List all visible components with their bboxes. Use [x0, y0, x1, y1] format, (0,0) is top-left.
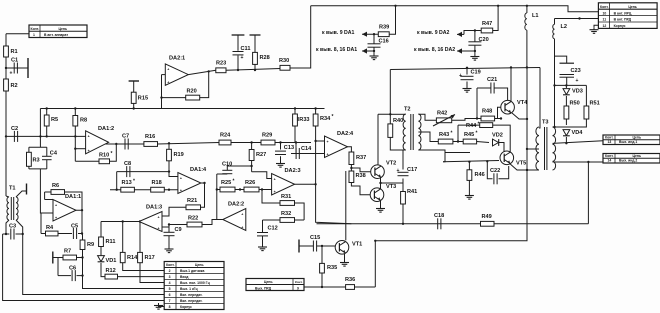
- svg-text:Вых. пол. 1000 Гц: Вых. пол. 1000 Гц: [180, 281, 211, 285]
- svg-text:Вых.1 датчика: Вых.1 датчика: [180, 269, 204, 273]
- svg-text:R43: R43: [439, 132, 449, 138]
- resistor R47: [481, 21, 493, 33]
- connector table X5 out1: [603, 135, 660, 145]
- capacitor C2: [11, 126, 18, 142]
- svg-text:14: 14: [608, 159, 612, 163]
- svg-text:DA1:4: DA1:4: [190, 167, 207, 173]
- wire R8 bottom: [74, 126, 76, 136]
- svg-text:R42: R42: [437, 111, 447, 117]
- svg-text:+: +: [158, 215, 160, 219]
- svg-text:Конт.: Конт.: [605, 135, 614, 139]
- node L2 tap: [578, 17, 580, 19]
- ground big table: [158, 303, 160, 306]
- resistor R11: [99, 237, 116, 247]
- svg-text:R11: R11: [106, 239, 116, 245]
- svg-text:Цепь: Цепь: [628, 5, 637, 9]
- capacitor C6: [69, 266, 76, 282]
- resistor R12: [105, 268, 118, 279]
- capacitor C20: [468, 37, 488, 45]
- svg-text:VD2: VD2: [492, 133, 503, 139]
- wire R5 top riser: [46, 109, 48, 116]
- svg-text:R18: R18: [152, 180, 162, 186]
- wire R20 right riser: [200, 71, 209, 97]
- wire R4 line: [41, 233, 46, 235]
- svg-text:C1: C1: [11, 58, 18, 64]
- wire R51 bottom: [553, 119, 587, 127]
- wire R15 stem bottom: [133, 103, 135, 108]
- capacitor C15: [310, 235, 320, 252]
- svg-text:R37: R37: [356, 155, 366, 161]
- svg-text:C3: C3: [9, 224, 16, 230]
- svg-text:R32: R32: [281, 211, 291, 217]
- wire C11 stem up: [237, 35, 239, 51]
- wire R27 bottom: [251, 161, 253, 172]
- wire C4 branch: [46, 147, 48, 156]
- wire C11 stem dn: [237, 56, 239, 71]
- wire DA1:3 out: [123, 221, 140, 223]
- wire R11 bottom: [100, 247, 102, 256]
- wire C9 gnd: [168, 236, 170, 247]
- wire supply bus 2: [390, 68, 540, 70]
- wire DA1:1 out col: [81, 210, 83, 233]
- wire R34 col: [315, 109, 317, 115]
- node DA1:2 out: [115, 143, 117, 145]
- wire C3 right: [16, 233, 23, 235]
- capacitor C1: [10, 58, 19, 77]
- wire DA1:2 noninv: [74, 136, 76, 161]
- svg-text:к выв. 8, 16 DA1: к выв. 8, 16 DA1: [316, 47, 357, 53]
- wire R3C4 top: [39, 136, 41, 147]
- wire connector K1 to bus: [6, 33, 29, 35]
- node VD4 bottom: [565, 142, 567, 144]
- wire R13 R18 line: [110, 189, 178, 191]
- wire R46 top riser: [468, 162, 470, 170]
- wire C23 branch top: [555, 56, 567, 63]
- node C11 bottom: [237, 69, 239, 71]
- resistor R18: [151, 180, 165, 192]
- svg-text:VT2: VT2: [386, 161, 396, 167]
- resistor R29: [261, 133, 275, 145]
- wire R10 loop: [75, 160, 99, 162]
- resistor R49: [481, 214, 495, 226]
- wire PRD line: [304, 286, 346, 288]
- wire DA1:1 minus col: [44, 192, 46, 200]
- op-amp DA1:1: [53, 194, 81, 221]
- svg-text:DA2:2: DA2:2: [228, 202, 244, 208]
- svg-text:+: +: [576, 78, 579, 84]
- svg-text:R24: R24: [220, 133, 231, 139]
- svg-text:+: +: [274, 177, 276, 181]
- diode VD4: [563, 130, 583, 136]
- svg-text:R26: R26: [245, 180, 255, 186]
- node R40 top: [389, 113, 391, 115]
- wire L2 top: [554, 19, 556, 25]
- transistor VT5: [500, 151, 526, 167]
- resistor R20: [186, 89, 200, 101]
- node R27 C10: [250, 165, 252, 167]
- node R19 C8: [168, 170, 170, 172]
- node R25R26: [239, 188, 241, 190]
- wire R3 branch bot: [28, 166, 30, 169]
- wire R51 col up: [585, 85, 587, 106]
- svg-text:+: +: [167, 81, 169, 85]
- capacitor C8: [124, 161, 131, 177]
- svg-text:*: *: [478, 122, 480, 128]
- arrow to pin 8 16 DA2: [457, 48, 462, 53]
- node T3 out2: [587, 161, 589, 163]
- resistor R4: [46, 225, 59, 236]
- adjust arrow R42: [433, 115, 455, 127]
- wire R11 col: [100, 222, 102, 238]
- wire R44 right: [493, 125, 511, 152]
- wire VT5 emitter rail: [527, 148, 539, 150]
- capacitor C16: [368, 39, 389, 48]
- wire R41 bottom: [402, 204, 404, 224]
- wire VT2 collector link: [378, 114, 390, 124]
- svg-text:C19: C19: [471, 70, 481, 76]
- wire R40 bottom: [390, 137, 405, 150]
- terminal C15: [298, 240, 300, 253]
- wire VT2 collector: [377, 114, 379, 165]
- node R48 VT4: [500, 117, 502, 119]
- wire R25 line: [217, 189, 220, 191]
- resistor R25: [220, 179, 235, 192]
- wire VT4 collector: [510, 68, 512, 103]
- wire DA1:3 in2: [162, 225, 187, 228]
- wire R24 R29 line: [231, 142, 261, 144]
- svg-text:3: 3: [169, 275, 171, 279]
- svg-text:R36: R36: [345, 277, 355, 283]
- capacitor C4: [42, 151, 58, 160]
- resistor R7: [63, 249, 77, 260]
- resistor R5: [44, 115, 58, 126]
- wire bias bus: [40, 108, 324, 110]
- resistor R34: [313, 114, 333, 126]
- svg-text:к выв. 8, 16 DA2: к выв. 8, 16 DA2: [414, 47, 455, 53]
- svg-text:2: 2: [169, 269, 171, 273]
- svg-text:C16: C16: [379, 39, 389, 45]
- node R20 output: [208, 70, 210, 72]
- wire R46 bottom: [468, 180, 470, 193]
- svg-text:+: +: [10, 71, 13, 77]
- node R18 right: [168, 189, 170, 191]
- wire R32 right: [295, 219, 305, 221]
- svg-text:DA2:3: DA2:3: [285, 168, 301, 174]
- wire C21 to VT4: [494, 88, 507, 100]
- node C3 right: [22, 233, 24, 235]
- wire C6 left col: [57, 258, 59, 276]
- wire T2 bottom tap col: [403, 150, 406, 170]
- wire C4 branch bot: [46, 160, 48, 169]
- svg-text:R47: R47: [482, 21, 492, 27]
- wire DA1:3 in1: [162, 207, 186, 216]
- node R5 bottom: [46, 135, 48, 137]
- svg-text:Корпус: Корпус: [614, 24, 626, 28]
- svg-text:+: +: [88, 149, 90, 153]
- svg-text:C15: C15: [310, 235, 320, 241]
- svg-text:+: +: [55, 203, 57, 207]
- wire pin816 DA2 arrow line: [457, 50, 475, 52]
- inductor L2: [553, 24, 555, 38]
- svg-text:*: *: [476, 131, 478, 137]
- svg-text:+: +: [241, 212, 243, 216]
- wire L1 top: [526, 6, 528, 13]
- svg-text:R6: R6: [52, 183, 59, 189]
- wire VT5 base row: [443, 161, 499, 162]
- wire bias bus drop: [39, 109, 41, 137]
- resistor R32: [280, 211, 295, 222]
- wire DA1:2 output: [105, 143, 144, 145]
- connector table X2 top right: [598, 3, 657, 29]
- wire R35 col: [321, 246, 323, 263]
- resistor R1: [4, 46, 18, 57]
- wire T3 sec top tap: [554, 85, 556, 127]
- wire R3C4 stem: [40, 169, 53, 213]
- wire R43 R45 link: [453, 141, 463, 143]
- op-amp DA2:1: [165, 56, 188, 86]
- svg-text:C2: C2: [11, 126, 18, 132]
- ground VT3: [380, 206, 382, 209]
- capacitor C12: [257, 226, 278, 236]
- svg-text:DA2:1: DA2:1: [169, 56, 185, 62]
- svg-text:13: 13: [608, 140, 612, 144]
- svg-text:+: +: [327, 140, 329, 144]
- op-amp DA1:4: [178, 167, 207, 194]
- wire R32 left col: [262, 220, 264, 233]
- svg-text:6: 6: [169, 293, 171, 297]
- resistor R44: [466, 122, 493, 130]
- node R16R19: [168, 142, 170, 144]
- node C15 R35: [321, 245, 323, 247]
- svg-text:Цепь: Цепь: [633, 154, 642, 158]
- svg-text:DA1:3: DA1:3: [146, 205, 162, 211]
- svg-text:Вых. инд.1: Вых. инд.1: [619, 140, 637, 144]
- connector table X6 out2: [603, 154, 660, 164]
- svg-text:10: 10: [603, 11, 607, 15]
- resistor R46: [467, 170, 485, 181]
- svg-text:C12: C12: [268, 226, 278, 232]
- svg-text:Конт.: Конт.: [31, 27, 40, 31]
- wire R39 riser: [389, 6, 395, 34]
- svg-text:VT1: VT1: [352, 242, 362, 248]
- svg-text:R4: R4: [46, 225, 54, 231]
- svg-text:к выв. 9 DA2: к выв. 9 DA2: [417, 30, 450, 36]
- wire R12 right: [118, 276, 165, 278]
- node VT23 mid: [379, 182, 381, 184]
- wire R33 bottom: [294, 126, 296, 143]
- wire VT2 base: [351, 168, 371, 172]
- wire T1 sec bottom: [16, 220, 164, 295]
- wire R26 right: [259, 189, 272, 191]
- resistor R8: [73, 116, 87, 127]
- node VT5 e rail: [526, 169, 528, 171]
- wire T2 r mid: [418, 132, 438, 142]
- wire bus2 riser: [389, 70, 391, 115]
- svg-text:7: 7: [169, 299, 171, 303]
- wire R28 to wire: [254, 64, 256, 70]
- svg-text:R48: R48: [482, 109, 492, 115]
- svg-text:C13: C13: [284, 145, 294, 151]
- ground C9: [168, 247, 170, 250]
- wire C13 stem: [280, 143, 282, 150]
- svg-text:R40: R40: [393, 118, 403, 124]
- capacitor C23: [560, 63, 581, 84]
- svg-text:C7: C7: [122, 134, 129, 140]
- wire DA1:3 out left: [101, 221, 123, 223]
- svg-text:R19: R19: [174, 152, 184, 158]
- svg-text:R17: R17: [145, 255, 155, 261]
- wire R48 right: [495, 118, 501, 120]
- wire DA2:4 minus: [316, 140, 325, 142]
- wire R47 riser: [493, 6, 498, 31]
- wire R8 top riser: [74, 109, 76, 116]
- wire C5 to R9: [78, 233, 83, 235]
- wire C14 drop: [295, 143, 297, 154]
- svg-text:R3: R3: [33, 158, 40, 164]
- svg-text:R16: R16: [145, 134, 155, 140]
- arrow to pin 9 DA1: [362, 32, 367, 37]
- svg-text:9: 9: [297, 286, 299, 290]
- wire R47 to C20: [464, 31, 481, 35]
- svg-text:VT4: VT4: [517, 100, 528, 106]
- svg-text:*: *: [133, 179, 135, 185]
- wire bottom return bus: [375, 68, 527, 241]
- wire C15 line: [299, 245, 314, 247]
- node DA1:2 plus: [74, 148, 76, 150]
- svg-text:R41: R41: [407, 189, 417, 195]
- svg-text:R30: R30: [279, 58, 289, 64]
- svg-text:C10: C10: [222, 162, 232, 168]
- svg-text:+: +: [327, 153, 329, 157]
- svg-text:Конт.: Конт.: [295, 280, 303, 284]
- transistor VT2: [371, 161, 397, 179]
- node R34 top: [314, 107, 316, 109]
- node C16 mid: [373, 50, 375, 52]
- wire L2 bottom col: [554, 39, 556, 86]
- wire R7 right: [77, 257, 83, 259]
- svg-text:+: +: [241, 55, 244, 61]
- svg-text:+: +: [459, 73, 462, 79]
- svg-text:В ант. ПРД: В ант. ПРД: [614, 18, 632, 22]
- wire C8 left drop: [116, 172, 118, 190]
- svg-text:+: +: [55, 216, 57, 220]
- wire C13 gnd stem: [280, 156, 282, 161]
- wire R37 R38 mid: [350, 165, 352, 172]
- wire mid node to C17: [381, 182, 404, 184]
- node T3 bottom rail: [526, 169, 528, 171]
- svg-text:R21: R21: [187, 198, 197, 204]
- wire T2 top tap: [390, 113, 405, 115]
- svg-text:C8: C8: [124, 161, 131, 167]
- wire R3C4 bottom bar: [29, 168, 47, 170]
- svg-text:Вход: Вход: [180, 275, 189, 279]
- resistor R23: [216, 61, 226, 73]
- node C6 node: [81, 274, 83, 276]
- wire T3 primary feed: [539, 68, 540, 129]
- svg-text:VD4: VD4: [572, 130, 584, 136]
- wire C1 branch: [6, 67, 28, 69]
- resistor R38: [349, 171, 366, 183]
- transformer T1: [7, 186, 18, 221]
- capacitor C13: [275, 145, 294, 155]
- wire R9 col: [82, 234, 84, 241]
- wire C6 line: [58, 275, 71, 277]
- wire R32 left: [263, 219, 281, 221]
- wire left col2: [3, 234, 165, 301]
- node C14 top: [295, 141, 297, 143]
- svg-text:C17: C17: [407, 167, 417, 173]
- node C9 top: [168, 223, 170, 225]
- svg-text:R46: R46: [475, 172, 485, 178]
- wire R19 bottom col: [169, 161, 178, 177]
- inductor L1: [525, 13, 527, 30]
- wire R15 stem top: [133, 81, 135, 92]
- ground C16: [373, 54, 375, 57]
- wire R4 to C5: [58, 233, 72, 235]
- wire T2 bot to VT5row: [443, 153, 445, 162]
- svg-text:Вых. 1 кГц: Вых. 1 кГц: [180, 287, 199, 291]
- resistor R45: [463, 131, 477, 144]
- node DA2:3 out col: [314, 183, 316, 185]
- node return bus left: [374, 240, 376, 242]
- svg-text:Конт.: Конт.: [600, 5, 609, 9]
- svg-text:Цепь: Цепь: [195, 263, 204, 267]
- svg-text:+: +: [158, 227, 160, 231]
- svg-text:R20: R20: [187, 89, 197, 95]
- svg-text:C9: C9: [175, 227, 182, 233]
- resistor R2: [4, 79, 18, 91]
- ground C20: [474, 54, 476, 57]
- transistor VT1: [335, 241, 362, 255]
- wire C23 out: [566, 77, 568, 85]
- svg-text:*: *: [111, 151, 113, 157]
- wire DA2:2 out: [217, 190, 223, 220]
- wire R33 col: [294, 109, 296, 115]
- node R26 right: [261, 188, 263, 190]
- wire VT4 emitter: [512, 113, 527, 119]
- node R5 top: [46, 107, 48, 109]
- svg-text:R50: R50: [570, 101, 580, 107]
- capacitor C7: [122, 134, 129, 150]
- wire C20 lower stem: [474, 46, 476, 54]
- svg-text:Конт.: Конт.: [166, 263, 175, 267]
- wire korpус row: [159, 303, 165, 307]
- wire R27 bottom link: [252, 172, 272, 179]
- wire C16 stem: [373, 34, 375, 43]
- svg-text:‖R33: ‖R33: [297, 117, 310, 123]
- transistor VT4: [501, 100, 528, 114]
- wire R23 to R30: [226, 69, 280, 71]
- wire R6 wire: [45, 191, 51, 193]
- svg-text:R13: R13: [122, 180, 132, 186]
- resistor R42: [436, 111, 451, 123]
- wire C10 top lead: [227, 166, 251, 170]
- resistor R3: [27, 152, 40, 166]
- node R43R45: [457, 140, 459, 142]
- node R7 node: [81, 256, 83, 258]
- svg-text:Цепь: Цепь: [59, 27, 68, 31]
- svg-text:R51: R51: [590, 101, 600, 107]
- wire R16 to R24: [158, 143, 220, 145]
- node C23 bottom: [553, 84, 555, 86]
- wire DA2:4 out: [347, 147, 352, 152]
- node C2 junction: [5, 135, 7, 137]
- resistor R37: [349, 152, 366, 165]
- svg-text:Корпус: Корпус: [180, 305, 192, 309]
- wire C19 gnd stem: [466, 82, 468, 87]
- svg-text:VD1: VD1: [106, 258, 117, 264]
- node R28 bottom: [254, 69, 256, 71]
